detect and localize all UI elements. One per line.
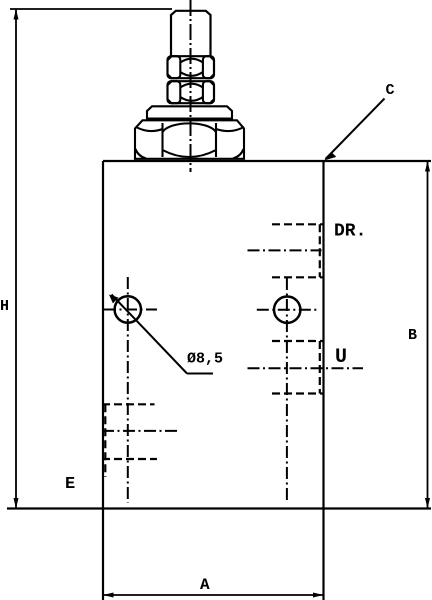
arrow A right bbox=[313, 593, 324, 598]
locknut N1 bbox=[168, 56, 215, 78]
view arrow C bbox=[326, 99, 385, 160]
hole right horizontal centerline bbox=[257, 309, 317, 311]
port U hidden lines bbox=[272, 341, 324, 394]
port E centerline bbox=[102, 430, 178, 432]
hole right vertical centerline bbox=[286, 278, 288, 503]
valve body outline bbox=[7, 161, 431, 600]
leader line dia 8,5 bbox=[109, 295, 213, 374]
port DR hidden lines bbox=[272, 224, 324, 277]
svg-text:U: U bbox=[335, 346, 347, 369]
arrow B top bbox=[425, 161, 430, 172]
wire screw centerline bbox=[190, 0, 192, 172]
svg-text:H: H bbox=[0, 298, 9, 315]
arrow H top bbox=[14, 9, 19, 20]
arrow B bottom bbox=[425, 498, 430, 509]
svg-text:DR.: DR. bbox=[334, 222, 366, 242]
hole left vertical centerline bbox=[127, 277, 129, 503]
svg-text:B: B bbox=[408, 327, 417, 344]
dimension H line bbox=[10, 9, 172, 509]
locknut N2 bbox=[168, 81, 215, 103]
svg-text:A: A bbox=[200, 576, 210, 594]
svg-text:C: C bbox=[386, 82, 395, 99]
washer bbox=[147, 106, 232, 118]
arrow H bottom bbox=[14, 498, 19, 509]
dimension A line bbox=[103, 594, 324, 596]
hole left horizontal centerline bbox=[104, 309, 157, 311]
hole left circle bbox=[115, 296, 141, 322]
port U centerline bbox=[248, 367, 364, 369]
port E hidden lines bbox=[102, 404, 157, 477]
dimension B line bbox=[427, 161, 429, 509]
adjustment stud bbox=[171, 11, 211, 57]
port DR centerline bbox=[248, 249, 322, 251]
svg-text:E: E bbox=[65, 475, 75, 494]
hole right circle bbox=[274, 297, 300, 323]
arrow A left bbox=[103, 593, 114, 598]
hex nut body bbox=[135, 120, 244, 159]
svg-text:Ø8,5: Ø8,5 bbox=[187, 351, 223, 368]
